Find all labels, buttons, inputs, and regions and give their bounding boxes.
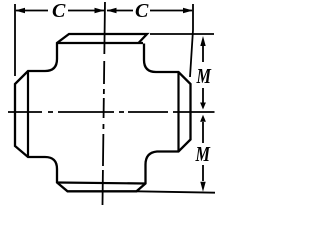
svg-text:M: M <box>196 64 212 88</box>
left extension line <box>14 4 16 76</box>
svg-text:C: C <box>52 0 66 22</box>
bottom band inner edge <box>57 183 146 184</box>
cross body outline <box>15 34 191 191</box>
dim arrows right <box>200 36 206 192</box>
svg-text:M: M <box>195 142 211 166</box>
right extension line <box>190 4 193 77</box>
dim arrows top <box>15 8 193 13</box>
left band inner edge <box>27 71 29 157</box>
right band inner edge <box>177 72 179 152</box>
svg-text:C: C <box>135 0 149 22</box>
top face extension <box>150 33 214 35</box>
top band inner edge <box>57 42 143 44</box>
bottom face extension <box>137 191 215 192</box>
dimension line M upper <box>202 40 204 181</box>
vertical centerline <box>102 2 104 205</box>
dimension line C left <box>16 10 192 12</box>
horizontal centerline <box>8 111 215 113</box>
